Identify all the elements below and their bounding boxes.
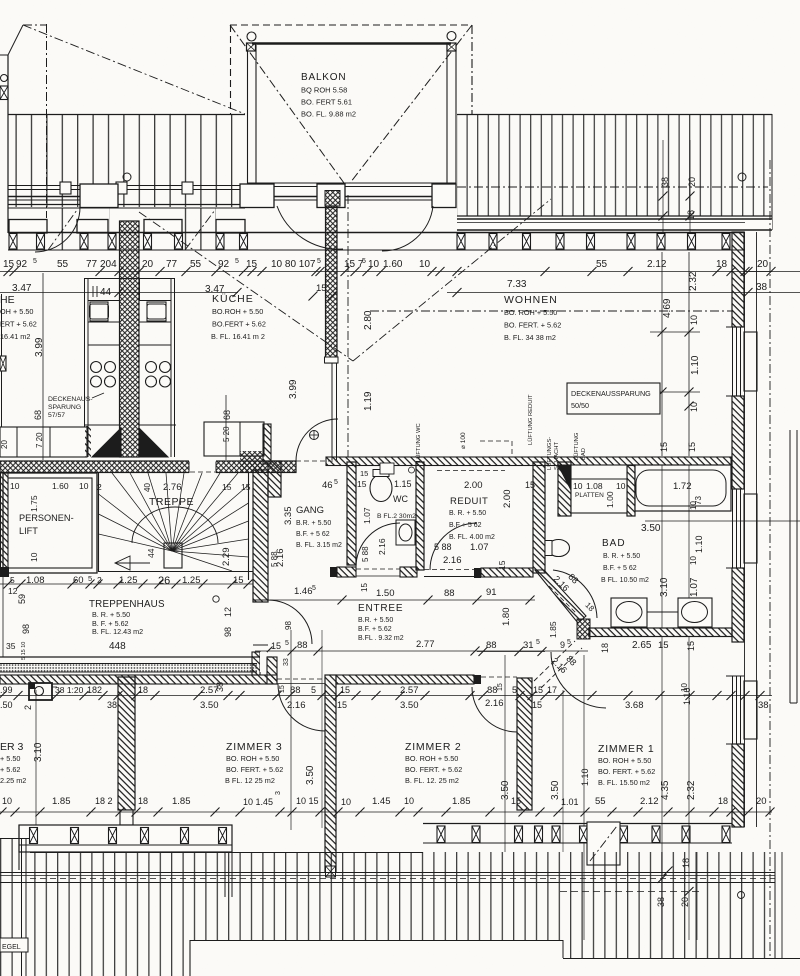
stair TREPPE: [99, 473, 254, 580]
svg-text:5: 5: [33, 258, 37, 265]
svg-text:2.29: 2.29: [221, 548, 232, 567]
svg-text:B FL. 12 25 m2: B FL. 12 25 m2: [225, 776, 275, 785]
svg-text:2: 2: [97, 482, 102, 492]
svg-text:ZIMMER 2: ZIMMER 2: [405, 741, 462, 753]
svg-text:38: 38: [758, 700, 769, 711]
svg-text:44: 44: [146, 548, 156, 558]
svg-text:5: 5: [285, 640, 289, 647]
svg-text:1.10: 1.10: [690, 355, 701, 375]
right exterior wall: [732, 232, 744, 827]
svg-text:BO.ROH + 5.50: BO.ROH + 5.50: [212, 307, 263, 316]
right wall windows: [726, 232, 757, 827]
svg-text:BO. ROH + 5.50: BO. ROH + 5.50: [226, 754, 279, 763]
balcony right post: [447, 32, 456, 187]
bottom right gutter: [560, 160, 797, 958]
svg-text:73: 73: [694, 496, 703, 505]
svg-text:2.25 m2: 2.25 m2: [0, 776, 26, 785]
room label KUECHE left cut: [0, 294, 37, 341]
svg-text:BALKON: BALKON: [301, 72, 346, 83]
timber boxes top band: [9, 234, 730, 250]
svg-text:10: 10: [368, 259, 380, 270]
svg-text:10 15: 10 15: [296, 796, 319, 806]
svg-text:B.FL . 9.32 m2: B.FL . 9.32 m2: [358, 635, 404, 642]
svg-text:1.46: 1.46: [294, 586, 313, 597]
svg-text:57/57: 57/57: [48, 412, 65, 419]
door arc wohnen balcony: [382, 206, 433, 251]
svg-text:15 7: 15 7: [344, 259, 364, 270]
svg-text:18: 18: [138, 685, 148, 695]
svg-text:15: 15: [222, 482, 232, 492]
door arcs left flat: [35, 207, 80, 252]
svg-text:BO. ROH + 5.50: BO. ROH + 5.50: [504, 308, 557, 317]
svg-text:55: 55: [190, 259, 202, 270]
svg-text:1.00: 1.00: [605, 491, 615, 508]
kitchen sink units: [90, 302, 167, 321]
svg-text:4.69: 4.69: [662, 298, 673, 318]
svg-text:ZIMMER 1: ZIMMER 1: [598, 743, 655, 755]
bedroom bottom dim row: [0, 791, 775, 817]
reduit bottom wall: [424, 568, 533, 578]
door arc reduit: [430, 523, 477, 570]
svg-text:5: 5: [235, 258, 239, 265]
svg-text:20: 20: [0, 440, 9, 449]
svg-text:2.00: 2.00: [502, 490, 513, 509]
svg-text:+ 5.62: + 5.62: [0, 765, 21, 774]
svg-text:BO. FL. 9.88 m2: BO. FL. 9.88 m2: [301, 110, 356, 119]
svg-text:WC: WC: [393, 494, 408, 504]
roof deck stripes right block: [457, 114, 772, 230]
kitchen stoves: [91, 362, 171, 388]
bedroom top dim row: [0, 691, 772, 700]
svg-text:B.R. + 5.50: B.R. + 5.50: [358, 617, 393, 624]
svg-text:2.00: 2.00: [464, 480, 483, 491]
left roof hip lines: [23, 24, 245, 218]
svg-text:B.R. + 5.50: B.R. + 5.50: [296, 520, 331, 527]
svg-text:BO. FERT. + 5.62: BO. FERT. + 5.62: [504, 321, 561, 330]
svg-text:DECKENAUSSPARUNG: DECKENAUSSPARUNG: [571, 389, 651, 398]
svg-text:10: 10: [10, 481, 20, 491]
svg-text:5: 5: [512, 685, 517, 695]
central wall column kueche-wohnen: [325, 206, 339, 460]
svg-text:1.15: 1.15: [394, 479, 412, 489]
bad dims: [641, 465, 800, 628]
svg-text:2.16: 2.16: [377, 538, 387, 555]
svg-text:ER 3: ER 3: [0, 741, 24, 753]
svg-text:B FL.2 30m2: B FL.2 30m2: [377, 513, 416, 520]
wc bottom wall: [330, 567, 417, 577]
svg-text:5: 5: [10, 575, 15, 585]
zimmer2 door: [472, 677, 517, 732]
gang-wc wall: [347, 462, 356, 565]
svg-text:3.68: 3.68: [625, 700, 644, 711]
svg-text:20: 20: [757, 259, 769, 270]
svg-text:LIFT: LIFT: [19, 526, 38, 536]
svg-text:1.85: 1.85: [548, 621, 558, 638]
svg-text:20: 20: [687, 177, 697, 187]
svg-text:B. R. + 5.50: B. R. + 5.50: [603, 553, 640, 560]
svg-text:15: 15: [533, 685, 543, 695]
svg-text:1.45: 1.45: [372, 796, 391, 807]
balcony roof valley diagonals: [230, 25, 472, 183]
svg-text:1.07: 1.07: [362, 507, 372, 524]
svg-text:46: 46: [322, 480, 333, 491]
left edge boxes: [0, 25, 23, 100]
svg-text:B. FL. 34 38 m2: B. FL. 34 38 m2: [504, 333, 556, 342]
door arc bad: [553, 570, 597, 618]
svg-text:68: 68: [222, 410, 232, 420]
roof edge line with posts left: [8, 182, 245, 194]
svg-text:B. FL. 15.50 m2: B. FL. 15.50 m2: [598, 778, 650, 787]
dimension row top: [0, 258, 776, 276]
room label ENTREE: [358, 603, 404, 642]
svg-text:10: 10: [689, 556, 698, 565]
svg-text:88: 88: [486, 640, 497, 651]
lueftung labels rotated: [415, 394, 587, 470]
bottom roof stripes: [0, 838, 800, 976]
svg-text:3.50: 3.50: [400, 700, 419, 711]
svg-text:204: 204: [100, 259, 117, 270]
bedroom top dim texts: [0, 682, 769, 711]
svg-text:1.10: 1.10: [694, 535, 704, 553]
svg-text:B. R. + 5.50: B. R. + 5.50: [449, 510, 486, 517]
svg-text:1.60: 1.60: [383, 259, 403, 270]
svg-text:1.75: 1.75: [29, 495, 39, 512]
svg-text:10: 10: [419, 259, 431, 270]
bedroom rotated dims: [33, 630, 697, 940]
room label KUECHE: [211, 293, 266, 341]
svg-text:B.F. + 5 62: B.F. + 5 62: [603, 565, 637, 572]
svg-text:LÜFTUNG REDUIT: LÜFTUNG REDUIT: [527, 394, 534, 445]
svg-text:18: 18: [681, 858, 691, 868]
svg-text:15: 15: [337, 700, 347, 710]
svg-text:B.F. + 5.62: B.F. + 5.62: [358, 626, 392, 633]
svg-text:DECKENAUS-: DECKENAUS-: [48, 396, 93, 403]
svg-text:5: 5: [334, 479, 338, 486]
svg-text:1.60: 1.60: [52, 481, 69, 491]
svg-text:1.85: 1.85: [452, 796, 471, 807]
glazing lines balcony doors: [8, 197, 432, 201]
svg-text:9: 9: [560, 640, 565, 650]
svg-text:15: 15: [511, 796, 521, 806]
svg-text:BAD: BAD: [602, 538, 626, 549]
svg-text:38: 38: [660, 177, 670, 187]
svg-text:15: 15: [360, 469, 368, 478]
svg-text:10: 10: [689, 315, 699, 325]
svg-text:B. FL. 16.41 m 2: B. FL. 16.41 m 2: [211, 332, 265, 341]
svg-text:3.50: 3.50: [641, 523, 661, 534]
svg-text:PLATTEN: PLATTEN: [575, 492, 604, 499]
door arc kueche balcony: [277, 206, 343, 249]
svg-text:ENTREE: ENTREE: [358, 603, 403, 614]
valley lines below balcony: [139, 195, 551, 457]
room label ZIMMER 1: [598, 743, 655, 787]
svg-text:2.65: 2.65: [632, 640, 652, 651]
svg-text:92: 92: [16, 259, 28, 270]
svg-text:1.85: 1.85: [52, 796, 71, 807]
svg-text:77: 77: [86, 259, 98, 270]
svg-text:68: 68: [33, 410, 43, 420]
svg-text:15: 15: [658, 640, 669, 651]
svg-text:18: 18: [600, 643, 610, 653]
svg-text:3.50: 3.50: [200, 700, 219, 711]
svg-text:+ 5.50: + 5.50: [0, 754, 21, 763]
bad dims bottom: [477, 621, 696, 656]
svg-text:88: 88: [297, 640, 308, 651]
svg-text:B FL. 10.50 m2: B FL. 10.50 m2: [601, 577, 649, 584]
svg-text:B.F. + 5 62: B.F. + 5 62: [296, 531, 330, 538]
svg-text:10: 10: [689, 402, 699, 412]
svg-text:15: 15: [233, 575, 244, 586]
svg-text:10: 10: [79, 481, 89, 491]
svg-text:1.25: 1.25: [119, 575, 138, 586]
svg-text:15: 15: [659, 442, 669, 452]
svg-text:10 80 107: 10 80 107: [271, 259, 316, 270]
svg-text:1.07: 1.07: [689, 577, 700, 597]
roof deck stripes left block: [8, 55, 245, 250]
svg-text:38 1:20: 38 1:20: [55, 685, 84, 695]
svg-text:10: 10: [29, 552, 39, 562]
svg-text:1.80: 1.80: [501, 608, 512, 627]
gang dims: [270, 479, 338, 567]
svg-text:1.07: 1.07: [470, 542, 489, 553]
svg-text:10: 10: [2, 796, 12, 806]
svg-text:BQ ROH 5.58: BQ ROH 5.58: [301, 86, 347, 95]
svg-text:LÜFTUNG WC: LÜFTUNG WC: [415, 423, 422, 462]
section line wohnen: [370, 310, 733, 312]
dim row y578: [0, 574, 253, 589]
svg-text:44: 44: [100, 287, 112, 298]
svg-text:LÜFTUNG: LÜFTUNG: [573, 432, 580, 460]
svg-text:15: 15: [271, 641, 281, 651]
svg-text:26: 26: [158, 575, 170, 587]
stair-gang wall: [253, 461, 281, 602]
svg-text:5: 5: [362, 258, 366, 265]
svg-text:18: 18: [138, 796, 148, 806]
svg-text:91: 91: [486, 587, 497, 598]
svg-text:5: 5: [88, 574, 92, 583]
svg-text:18 2: 18 2: [95, 796, 113, 806]
svg-text:2.12: 2.12: [640, 796, 659, 807]
svg-text:98: 98: [223, 627, 233, 637]
svg-text:HE: HE: [0, 294, 15, 306]
bad shaft walls: [558, 462, 635, 516]
svg-text:38: 38: [107, 700, 117, 710]
svg-text:20: 20: [756, 796, 767, 807]
svg-text:38: 38: [756, 282, 768, 293]
svg-text:3.10: 3.10: [659, 577, 670, 597]
svg-text:.50: .50: [0, 700, 13, 710]
svg-text:31: 31: [523, 640, 534, 651]
balcony label: [301, 72, 356, 119]
svg-text:3.50: 3.50: [550, 780, 561, 800]
svg-text:92: 92: [218, 259, 230, 270]
svg-text:3.99: 3.99: [288, 379, 299, 399]
room label GANG: [296, 505, 342, 549]
stair dims top: [143, 482, 251, 566]
svg-text:10: 10: [680, 683, 689, 692]
svg-text:77: 77: [166, 259, 178, 270]
svg-text:33: 33: [283, 658, 290, 666]
svg-text:12: 12: [223, 607, 233, 617]
svg-text:2.57: 2.57: [400, 685, 419, 696]
svg-text:3: 3: [275, 791, 282, 795]
wc-reduit wall: [416, 462, 424, 570]
svg-text:B. FL. 12.43 m2: B. FL. 12.43 m2: [92, 627, 143, 636]
room label WOHNEN: [504, 294, 561, 342]
svg-text:1.08: 1.08: [586, 481, 603, 491]
balcony door wall piers: [80, 184, 456, 208]
roof edge lines bottom: [0, 873, 775, 883]
svg-text:5: 5: [536, 639, 540, 646]
svg-text:3.10: 3.10: [33, 742, 44, 762]
svg-text:98: 98: [284, 621, 293, 630]
svg-text:B. FL. 4.00 m2: B. FL. 4.00 m2: [449, 534, 495, 541]
balcony rail and floor: [247, 44, 456, 187]
room label BAD: [601, 538, 649, 584]
svg-text:BO. ROH + 5.50: BO. ROH + 5.50: [598, 756, 651, 765]
balcony dashed outline: [230, 25, 472, 114]
svg-text:2.16: 2.16: [443, 555, 462, 566]
reduit-bad wall: [533, 462, 545, 573]
svg-text:1.85: 1.85: [172, 796, 191, 807]
svg-text:WOHNEN: WOHNEN: [504, 294, 558, 306]
svg-text:38: 38: [656, 897, 666, 907]
svg-text:1.25: 1.25: [182, 575, 201, 586]
svg-text:60: 60: [73, 575, 84, 586]
svg-text:18: 18: [718, 796, 728, 806]
svg-text:ERT + 5.62: ERT + 5.62: [0, 320, 37, 329]
svg-text:REDUIT: REDUIT: [450, 496, 488, 507]
svg-text:2: 2: [23, 705, 33, 710]
svg-text:1.50: 1.50: [376, 588, 395, 599]
wall zimmer3-zimmer2: [325, 675, 336, 877]
svg-text:88: 88: [487, 685, 498, 696]
svg-text:5 88: 5 88: [361, 546, 370, 562]
balcony left post: [247, 32, 257, 186]
svg-text:EGEL: EGEL: [2, 944, 21, 951]
svg-text:BO. FERT 5.61: BO. FERT 5.61: [301, 98, 352, 107]
svg-text:3.50: 3.50: [305, 765, 316, 785]
bedroom band left: [19, 825, 232, 897]
room label ZIMMER 3: [225, 741, 283, 785]
svg-text:15: 15: [360, 583, 369, 592]
svg-text:2.12: 2.12: [647, 259, 667, 270]
svg-text:⌀ 100: ⌀ 100: [460, 432, 467, 449]
svg-text:55: 55: [595, 796, 606, 807]
svg-text:5: 5: [311, 685, 316, 695]
wohnen south wall: [326, 457, 731, 466]
dim 3.47 labels: [0, 279, 527, 427]
deckenaussparung wohnen box: [567, 383, 660, 414]
entree-bad diagonal wall: [535, 570, 590, 639]
svg-text:2.76: 2.76: [163, 482, 182, 493]
svg-text:5 20: 5 20: [222, 426, 231, 442]
svg-text:20: 20: [142, 259, 154, 270]
top wall band lines: [8, 233, 745, 251]
svg-text:OH + 5.50: OH + 5.50: [0, 307, 33, 316]
platten box: [571, 465, 627, 513]
svg-text:2.80: 2.80: [363, 310, 374, 330]
svg-text:55: 55: [596, 259, 608, 270]
entree bottom wall right: [336, 675, 481, 684]
svg-text:88: 88: [444, 588, 455, 599]
svg-text:1.01: 1.01: [561, 797, 579, 807]
wall piers below left roof: [9, 220, 245, 234]
svg-text:17: 17: [547, 685, 557, 695]
bad bottom wall: [589, 628, 732, 637]
svg-text:2.16: 2.16: [485, 698, 504, 709]
svg-text:.99: .99: [0, 685, 13, 695]
svg-text:2: 2: [97, 575, 102, 585]
svg-text:BO. FERT. + 5.62: BO. FERT. + 5.62: [405, 765, 462, 774]
svg-text:15: 15: [686, 641, 696, 651]
svg-text:40: 40: [143, 483, 152, 492]
svg-text:TREPPENHAUS: TREPPENHAUS: [89, 599, 165, 610]
kitchen counter sections dark: [84, 425, 176, 457]
svg-text:15: 15: [497, 683, 504, 691]
deckenaussparung kueche label: [48, 393, 104, 419]
chimney shaft: [120, 221, 140, 457]
roof edge band right: [457, 219, 772, 230]
svg-text:BO. ROH + 5.50: BO. ROH + 5.50: [405, 754, 458, 763]
svg-text:KÜCHE: KÜCHE: [212, 293, 254, 305]
svg-text:B. R. + 5.50: B. R. + 5.50: [92, 610, 130, 619]
svg-text:3.50: 3.50: [500, 780, 511, 800]
svg-text:7.33: 7.33: [507, 279, 527, 290]
svg-text:3.35: 3.35: [283, 507, 294, 526]
svg-text:5: 5: [312, 585, 316, 592]
eaves dashdot line: [457, 186, 768, 188]
bedroom bottom dim row right: [404, 796, 767, 807]
svg-text:1.10: 1.10: [580, 768, 590, 786]
room label REDUIT: [449, 496, 495, 541]
lift dims: [10, 481, 102, 562]
svg-text:15: 15: [3, 259, 15, 270]
door gang-wohnen: [296, 419, 338, 461]
svg-text:59: 59: [17, 594, 27, 604]
reduit dims: [434, 480, 535, 570]
svg-text:2.16: 2.16: [287, 700, 306, 711]
svg-text:BO. FERT. + 5.62: BO. FERT. + 5.62: [226, 765, 283, 774]
svg-text:1.19: 1.19: [363, 391, 374, 411]
dim rotated wohnen right: [447, 252, 800, 456]
door arc entree: [253, 600, 312, 645]
svg-text:1.08: 1.08: [26, 575, 45, 586]
shaft box corridor left: [29, 683, 57, 700]
svg-text:5 88: 5 88: [434, 542, 452, 552]
svg-text:SPARUNG: SPARUNG: [48, 404, 81, 411]
corridor top wall: [0, 460, 296, 474]
svg-text:15: 15: [357, 479, 367, 489]
kitchen counter lines: [84, 278, 175, 457]
svg-text:16.41 m2: 16.41 m2: [0, 332, 30, 341]
svg-text:15: 15: [241, 482, 251, 492]
svg-text:2.77: 2.77: [416, 639, 435, 650]
wall zimmer2-zimmer1: [517, 678, 532, 810]
svg-text:ZIMMER 3: ZIMMER 3: [226, 741, 283, 753]
svg-text:10 1.45: 10 1.45: [243, 797, 273, 807]
svg-text:15: 15: [525, 480, 535, 490]
zimmer1 door diagonal: [534, 641, 606, 708]
wc fixtures: [370, 463, 415, 545]
dormer box: [587, 822, 620, 865]
svg-text:10: 10: [573, 481, 583, 491]
svg-text:38: 38: [215, 682, 225, 692]
svg-text:448: 448: [109, 641, 126, 652]
svg-text:10: 10: [616, 481, 626, 491]
svg-text:20: 20: [680, 897, 690, 907]
svg-text:5 88: 5 88: [270, 551, 279, 567]
